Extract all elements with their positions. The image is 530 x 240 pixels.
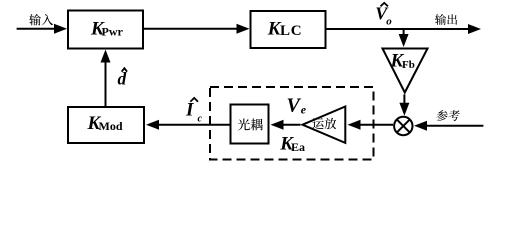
svg-text:Mod: Mod — [99, 119, 123, 133]
svg-text:Ea: Ea — [291, 140, 305, 154]
svg-text:Fb: Fb — [402, 59, 415, 71]
svg-text:Pwr: Pwr — [102, 25, 124, 39]
svg-text:c: c — [198, 114, 203, 125]
svg-text:e: e — [301, 102, 307, 116]
svg-text:V: V — [287, 94, 302, 116]
svg-text:o: o — [386, 16, 392, 28]
svg-text:LC: LC — [280, 23, 302, 39]
svg-text:I: I — [185, 100, 194, 121]
